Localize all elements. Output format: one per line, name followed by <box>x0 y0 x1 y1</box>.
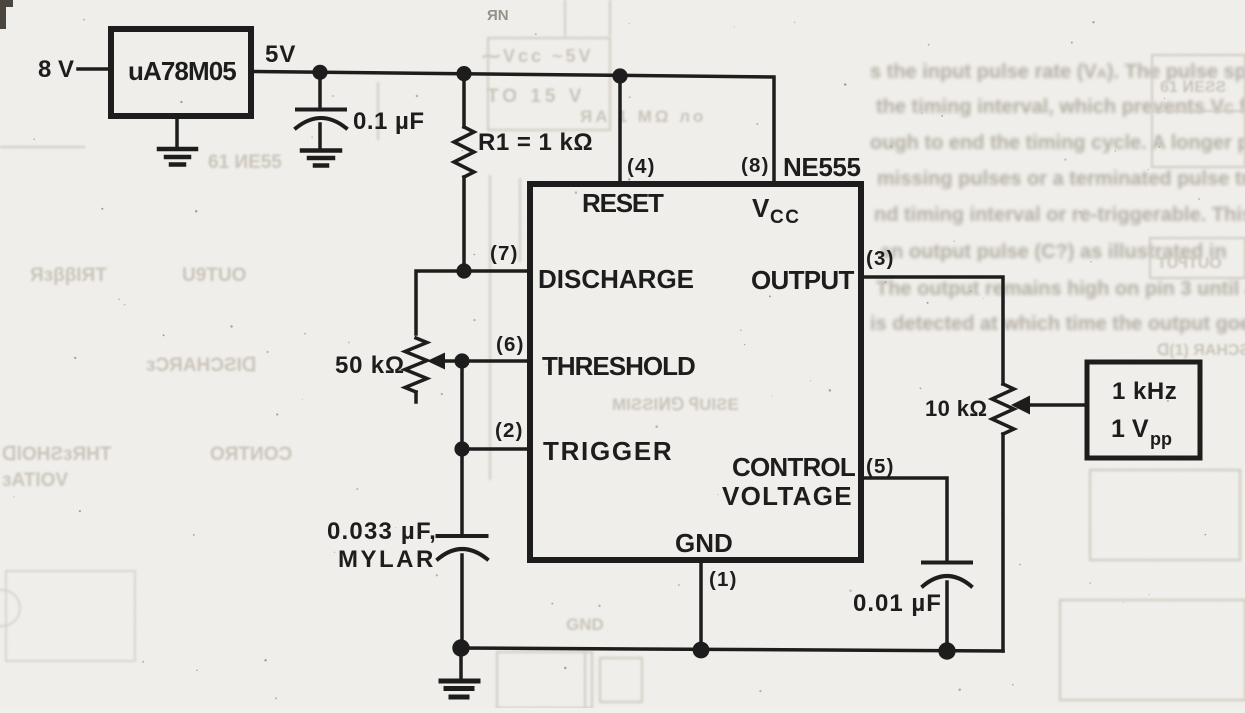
bleed-through faint boxes bottom right <box>1060 470 1245 700</box>
svg-text:(1): (1) <box>709 568 738 591</box>
svg-text:ЯA 1 MΩ ло: ЯA 1 MΩ ло <box>580 107 706 126</box>
svg-text:missing pulses or a terminated: missing pulses or a terminated pulse tra… <box>877 168 1245 190</box>
svg-text:U9TUO: U9TUO <box>182 265 246 286</box>
svg-text:DISCHARGE: DISCHARGE <box>538 264 694 294</box>
svg-text:50 kΩ: 50 kΩ <box>335 352 405 379</box>
svg-text:nd timing interval or re-trigg: nd timing interval or re-triggerable. Th… <box>874 204 1245 226</box>
wire: pin 5 control voltage <box>861 478 947 561</box>
svg-text:ЯɜββІЯТ: ЯɜββІЯТ <box>30 265 107 286</box>
value label 0.033 uF, MYLAR <box>327 518 437 573</box>
svg-text:ꓷ(1) ЯAHƆƧ: ꓷ(1) ЯAHƆƧ <box>1157 342 1245 359</box>
svg-text:0.1 µF: 0.1 µF <box>353 108 425 135</box>
bottom ground rail <box>460 648 1003 651</box>
label 1 kHz 1 Vpp <box>1111 378 1177 449</box>
ground (C1) <box>302 151 340 166</box>
svg-text:ЯN: ЯN <box>487 7 509 24</box>
wire: pin 7 discharge <box>416 271 530 334</box>
svg-text:ɜATlOV: ɜATlOV <box>2 470 68 491</box>
potentiometer R3 10k body <box>992 384 1014 651</box>
scanner edge mark top-left corner <box>0 0 13 29</box>
svg-text:THRESHOLD: THRESHOLD <box>542 351 695 381</box>
svg-text:GND: GND <box>675 528 733 558</box>
junction dot: rail left <box>452 639 469 656</box>
wire: pin 4 reset <box>618 76 622 185</box>
svg-text:is detected at which time the: is detected at which time the output goe… <box>870 313 1245 335</box>
svg-text:NE555: NE555 <box>783 152 861 182</box>
junction dot: trigger node <box>454 441 469 456</box>
bleed-through left-edge marks <box>2 152 292 491</box>
junction dot: C3 rail <box>938 642 955 659</box>
svg-text:the timing interval, which pre: the timing interval, which prevents VC f… <box>876 96 1245 118</box>
capacitor C1 0.1 uF <box>296 72 346 149</box>
svg-text:(8): (8) <box>741 154 770 177</box>
capacitor C3 0.01 uF <box>923 563 971 652</box>
generator box 1kHz 1Vpp <box>1087 362 1200 458</box>
svg-text:10 kΩ: 10 kΩ <box>925 396 987 421</box>
bleed-through ghost circuit labels <box>1157 79 1245 359</box>
junction dot: threshold node <box>454 353 469 368</box>
pin label CONTROL VOLTAGE <box>722 452 856 511</box>
ground (main rail) <box>441 648 478 697</box>
svg-text:1 kHz: 1 kHz <box>1112 378 1177 405</box>
svg-text:CC: CC <box>770 207 800 228</box>
svg-text:TRIGGER: TRIGGER <box>543 436 673 466</box>
pin label VCC <box>752 193 800 228</box>
svg-text:MIƧƧIͶ⅁ ꟼUlƧE: MIƧƧIͶ⅁ ꟼUlƧE <box>612 395 739 414</box>
svg-text:ᗡlOHƧɜЯHT: ᗡlOHƧɜЯHT <box>2 444 112 465</box>
svg-text:61 ИE55: 61 ИE55 <box>208 152 282 173</box>
svg-text:5V: 5V <box>265 41 296 68</box>
svg-text:MYLAR: MYLAR <box>338 546 436 573</box>
svg-text:(7): (7) <box>490 242 519 265</box>
svg-text:(6): (6) <box>496 333 525 356</box>
svg-text:ɜƆЯAHƆƧІᗡ: ɜƆЯAHƆƧІᗡ <box>146 355 257 376</box>
svg-text:0.01 µF: 0.01 µF <box>853 590 942 617</box>
svg-text:The output remains high on pin: The output remains high on pin 3 until a <box>876 278 1245 300</box>
svg-text:R1 = 1 kΩ: R1 = 1 kΩ <box>478 129 593 156</box>
IC U2 NE555 body <box>530 184 861 560</box>
svg-text:OЯTИOƆ: OЯTИOƆ <box>210 444 292 465</box>
regulator U1 uA78M05 box <box>111 29 251 116</box>
wire: regulator ground stem <box>175 116 179 149</box>
svg-text:(3): (3) <box>866 247 895 270</box>
bleed-through faint box bottom left <box>0 571 135 661</box>
potentiometer R2 wiper arrow <box>427 353 530 370</box>
svg-text:uA78M05: uA78M05 <box>128 56 236 86</box>
resistor R1 <box>454 74 474 271</box>
wire: pin 3 output <box>861 277 1003 384</box>
svg-text:TO 15 V: TO 15 V <box>487 86 585 107</box>
svg-text:(5): (5) <box>866 455 895 478</box>
wire: 8V input lead <box>78 67 110 71</box>
svg-text:V: V <box>752 193 770 223</box>
junction dot: R1 top <box>456 66 471 81</box>
svg-text:OUTPUT: OUTPUT <box>751 265 855 295</box>
junction dot: pin 4 rail <box>612 68 627 83</box>
wire: threshold to trigger to C2 <box>460 361 464 536</box>
svg-text:TUꟼTUO: TUꟼTUO <box>1157 255 1222 272</box>
wire: pin 1 gnd <box>699 560 703 650</box>
bleed-through middle marks <box>482 46 739 634</box>
junction dot: R1 / discharge <box>456 263 471 278</box>
ground (regulator) <box>159 149 196 165</box>
junction dot: pin 1 rail <box>693 642 710 659</box>
wire: 5V supply rail <box>251 72 774 186</box>
svg-text:(2): (2) <box>495 419 524 442</box>
svg-text:(4): (4) <box>627 155 656 178</box>
wire: pin 2 trigger <box>462 447 530 451</box>
svg-text:61 ͶEƧƧ: 61 ͶEƧƧ <box>1160 79 1227 96</box>
capacitor C2 0.033 uF mylar <box>438 536 488 648</box>
potentiometer R3 wiper arrow <box>1011 396 1087 415</box>
svg-text:GND: GND <box>566 615 604 634</box>
bleed-through paragraph (reverse page) <box>870 61 1245 335</box>
svg-text:CONTROL: CONTROL <box>732 452 856 482</box>
svg-text:ough to end the timing cycle.: ough to end the timing cycle. A longer p… <box>870 132 1245 154</box>
svg-text:8 V: 8 V <box>38 56 74 83</box>
svg-text:1 V: 1 V <box>1111 415 1149 443</box>
svg-text:pp: pp <box>1150 429 1172 449</box>
svg-text:0.033 µF,: 0.033 µF, <box>327 518 437 545</box>
junction dot: 5V node <box>312 65 327 80</box>
potentiometer R2 50k body <box>405 338 427 402</box>
svg-text:RESET: RESET <box>582 188 664 218</box>
svg-text:⁓Vcc ~5V: ⁓Vcc ~5V <box>482 46 594 66</box>
svg-text:VOLTAGE: VOLTAGE <box>722 481 853 511</box>
